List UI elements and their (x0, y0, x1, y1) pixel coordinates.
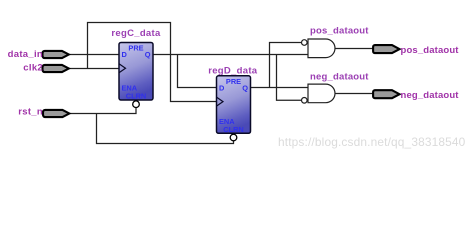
wire regD_data to gate1 bubble input (270, 43, 302, 88)
wire clk2 loop to FF2 clock (88, 23, 217, 102)
wire FF2 Q to gate2 upper input (251, 87, 309, 89)
svg-text:CLRN: CLRN (126, 92, 147, 101)
flip-flop U1 regC_data body (119, 43, 153, 101)
input port pin rst_n (43, 110, 69, 117)
G2 input bubble (302, 98, 308, 104)
and-gate G2 (neg) (308, 84, 335, 103)
output pin neg_dataout (373, 90, 399, 98)
svg-text:regC_data: regC_data (111, 28, 161, 39)
svg-text:pos_dataout: pos_dataout (401, 45, 460, 56)
svg-text:regD_data: regD_data (208, 65, 258, 76)
output pin pos_dataout (373, 45, 399, 53)
svg-text:CLRN: CLRN (223, 125, 244, 134)
wire rst_n to FF2 CLRN bubble (97, 114, 234, 144)
svg-text:neg_dataout: neg_dataout (401, 90, 460, 101)
G1 input bubble (302, 40, 308, 46)
wire gate2 output to neg_dataout pin (335, 93, 373, 95)
and-gate G1 (pos) (308, 39, 335, 58)
svg-text:D: D (122, 50, 128, 59)
svg-text:clk2: clk2 (23, 62, 43, 73)
wire clk2 to FF1 clock (69, 68, 120, 70)
FF1 CLRN bubble (133, 101, 140, 108)
wire regC_data to FF2 D (178, 55, 217, 88)
wire FF1 Q to gate1 lower input (153, 54, 308, 56)
wire gate1 output to pos_dataout pin (335, 48, 373, 50)
svg-text:PRE: PRE (226, 77, 241, 86)
svg-text:neg_dataout: neg_dataout (310, 72, 369, 83)
svg-text:Q: Q (242, 84, 248, 93)
svg-text:PRE: PRE (128, 44, 143, 53)
svg-text:data_in: data_in (8, 49, 43, 60)
svg-text:Q: Q (145, 50, 151, 59)
wire data_in to FF1 D (69, 54, 120, 56)
FF2 CLRN bubble (230, 134, 237, 141)
wire rst_n to FF1 CLRN bubble (69, 108, 136, 114)
wire regC_data to gate2 bubble input (277, 55, 302, 101)
svg-text:D: D (219, 84, 225, 93)
svg-text:https://blog.csdn.net/qq_38318: https://blog.csdn.net/qq_38318540 (278, 135, 466, 149)
input port pin data_in (43, 51, 69, 58)
input port pin clk2 (43, 65, 69, 72)
flip-flop U2 regD_data body (217, 76, 251, 134)
svg-text:pos_dataout: pos_dataout (310, 25, 369, 36)
svg-text:rst_n: rst_n (18, 107, 43, 118)
